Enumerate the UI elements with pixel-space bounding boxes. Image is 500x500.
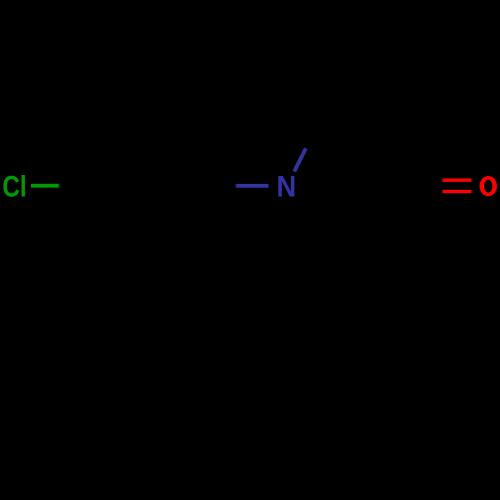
svg-text:N: N (277, 171, 297, 204)
bond N-CH3 (N half) (294, 148, 306, 172)
double bond C=O lower line (O half) (441, 190, 471, 193)
double bond C=O upper line (O half) (441, 179, 471, 182)
bond C4-N (N half) (235, 184, 269, 188)
svg-text:Cl: Cl (2, 170, 26, 203)
atom O (480, 176, 498, 196)
bond Cl-C1 (Cl half) (31, 184, 61, 188)
